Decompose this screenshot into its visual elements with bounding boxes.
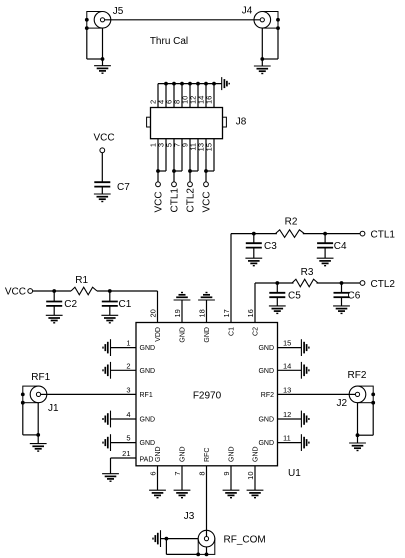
svg-text:7: 7	[173, 472, 182, 476]
U1 pin 20 (VDD)	[149, 309, 162, 342]
wire J2 shield loop	[356, 403, 374, 443]
J8 pin 6	[165, 84, 175, 108]
wire ground to J3	[161, 537, 199, 541]
wire R1 to U1 pin 20	[97, 291, 158, 323]
svg-text:VCC: VCC	[154, 191, 165, 212]
node VCC (J8)	[154, 169, 165, 212]
connector J1	[21, 372, 59, 414]
J8 pin 16	[205, 84, 215, 108]
J8 pin 12	[189, 84, 199, 108]
J8 pin 2	[149, 84, 159, 108]
wire J4 shield loop	[260, 28, 278, 66]
U1 pin 18 (GND)	[198, 300, 211, 343]
U1 pin 5 (GND)	[111, 434, 156, 448]
ground (C3)	[245, 258, 262, 266]
wire CTL2 rail	[255, 282, 360, 284]
ground (C4)	[317, 258, 334, 266]
svg-text:C1: C1	[119, 299, 132, 310]
connector J4	[242, 5, 280, 30]
capacitor C2	[46, 289, 77, 315]
ground (U1 pin 6)	[149, 490, 166, 498]
svg-text:4: 4	[126, 410, 130, 419]
ground (C1)	[101, 315, 118, 323]
U1 pin 15 (GND)	[258, 339, 301, 353]
ground (J1)	[30, 444, 47, 452]
svg-text:15: 15	[205, 143, 214, 151]
U1 pin 1 (GND)	[111, 339, 156, 353]
svg-text:C6: C6	[348, 290, 361, 301]
svg-text:5: 5	[126, 434, 130, 443]
node VCC (J8)	[202, 169, 213, 212]
svg-text:Thru Cal: Thru Cal	[150, 36, 188, 47]
J8 pin 10	[181, 84, 191, 108]
svg-text:F2970: F2970	[193, 391, 222, 402]
svg-text:GND: GND	[253, 446, 260, 462]
svg-text:3: 3	[126, 385, 130, 394]
svg-text:C3: C3	[264, 241, 277, 252]
svg-text:14: 14	[283, 361, 291, 370]
U1 pin 6 (GND)	[149, 446, 163, 490]
connector J5	[85, 6, 124, 30]
svg-text:VCC: VCC	[5, 287, 26, 298]
U1 pin 4 (GND)	[111, 410, 156, 424]
node VCC (C7)	[93, 133, 114, 153]
J8 pin 14	[197, 84, 207, 108]
svg-text:C2: C2	[253, 327, 260, 336]
svg-text:2: 2	[126, 361, 130, 370]
ground (U1 pin 1)	[103, 339, 111, 356]
header J8 body	[147, 108, 247, 139]
node VCC (R1)	[5, 287, 33, 298]
connector J3	[184, 511, 266, 554]
U1 pin 2 (GND)	[111, 361, 156, 375]
U1 pin 10 (GND)	[246, 446, 260, 490]
ground (U1 pin 11)	[301, 434, 309, 451]
svg-text:CTL1: CTL1	[170, 188, 181, 213]
svg-text:RF2: RF2	[348, 370, 367, 381]
svg-text:C2: C2	[64, 299, 77, 310]
svg-text:17: 17	[222, 309, 231, 317]
svg-text:20: 20	[149, 309, 158, 317]
svg-text:18: 18	[198, 309, 207, 317]
U1 pin 7 (GND)	[173, 446, 187, 490]
U1 pin 9 (GND)	[222, 446, 236, 490]
svg-text:15: 15	[283, 339, 291, 348]
node CTL1	[360, 230, 395, 241]
ground (U1 pin 9)	[223, 490, 240, 498]
J8 pin 1	[149, 139, 159, 182]
wire VCC to C2	[33, 290, 71, 292]
svg-text:RF2: RF2	[261, 392, 274, 399]
J8 pin 9	[181, 139, 191, 182]
ground (C2)	[46, 315, 63, 323]
wire C7 to ground	[101, 187, 103, 194]
net label Thru Cal	[150, 36, 188, 47]
ground (U1 pin 15)	[301, 339, 309, 356]
J8 pin 5	[165, 139, 175, 182]
ground (U1 pin 14)	[301, 362, 309, 379]
U1 pin 17 (C1)	[222, 309, 235, 336]
node CTL2	[360, 279, 395, 290]
svg-text:J1: J1	[48, 403, 59, 414]
capacitor C6	[334, 281, 361, 306]
wire J3 shield loop	[166, 539, 208, 557]
resistor R1	[71, 275, 97, 295]
resistor R3	[292, 267, 318, 288]
wire C3 rail to U1 pin 17	[230, 234, 232, 323]
ground (C5)	[269, 306, 286, 314]
ground (J3)	[153, 530, 161, 547]
svg-text:C4: C4	[334, 241, 347, 252]
svg-text:GND: GND	[180, 327, 187, 343]
svg-text:CTL2: CTL2	[186, 188, 197, 213]
ground (U1 pin 10)	[247, 490, 264, 498]
svg-text:6: 6	[149, 472, 158, 476]
wire VCC to C7	[101, 153, 103, 182]
wire CTL1 rail	[231, 233, 360, 235]
svg-text:J5: J5	[113, 6, 124, 17]
svg-text:GND: GND	[140, 440, 156, 447]
ground (U1 pin 12)	[301, 411, 309, 428]
svg-text:U1: U1	[288, 468, 301, 479]
ground (J4)	[254, 66, 271, 74]
U1 pin 12 (GND)	[258, 410, 301, 424]
capacitor C3	[246, 232, 277, 259]
svg-text:J3: J3	[184, 511, 195, 522]
svg-text:CTL2: CTL2	[371, 279, 396, 290]
capacitor C7	[94, 182, 130, 193]
svg-text:GND: GND	[204, 327, 211, 343]
svg-text:GND: GND	[155, 446, 162, 462]
svg-text:12: 12	[283, 410, 291, 419]
U1 pin 11 (GND)	[258, 434, 301, 448]
svg-text:GND: GND	[180, 446, 187, 462]
ground (C7)	[94, 194, 111, 202]
J8 pin 4	[157, 84, 167, 108]
svg-text:GND: GND	[229, 446, 236, 462]
svg-text:PAD: PAD	[140, 457, 154, 464]
ground (J5)	[94, 66, 111, 74]
svg-text:VCC: VCC	[93, 133, 114, 144]
ground (U1 pin 18)	[198, 293, 215, 301]
ground (U1 pin 2)	[103, 362, 111, 379]
svg-text:GND: GND	[258, 440, 274, 447]
U1 pin 19 (GND)	[173, 300, 186, 343]
svg-text:C7: C7	[117, 182, 130, 193]
svg-text:J4: J4	[242, 5, 253, 16]
svg-text:19: 19	[173, 309, 182, 317]
J8 pin 15	[205, 139, 215, 171]
wire J1 shield loop	[23, 403, 40, 444]
svg-text:C1: C1	[229, 327, 236, 336]
svg-text:9: 9	[222, 472, 231, 476]
svg-text:13: 13	[283, 385, 291, 394]
ground (U1 pin 21)	[102, 474, 119, 482]
IC U1 F2970 body	[136, 323, 301, 480]
svg-text:1: 1	[126, 339, 130, 348]
svg-text:CTL1: CTL1	[371, 230, 396, 241]
svg-text:21: 21	[122, 449, 130, 458]
connector J2	[336, 370, 375, 409]
resistor R2	[275, 217, 304, 239]
node CTL2 (J8)	[186, 169, 197, 212]
svg-text:VCC: VCC	[202, 191, 213, 212]
ground (J2)	[349, 443, 366, 451]
svg-text:GND: GND	[140, 368, 156, 375]
U1 pin 21 (PAD)	[111, 449, 154, 474]
ground (U1 pin 19)	[174, 293, 191, 301]
capacitor C5	[269, 281, 301, 306]
svg-text:GND: GND	[258, 345, 274, 352]
J8 pin 13	[197, 139, 207, 182]
capacitor C1	[102, 289, 132, 315]
node CTL1 (J8)	[170, 169, 181, 212]
wire C5 rail to U1 pin 16	[254, 283, 256, 323]
J8 pin 3	[157, 139, 167, 171]
svg-text:GND: GND	[140, 417, 156, 424]
svg-text:VDD: VDD	[155, 327, 162, 342]
svg-text:GND: GND	[258, 417, 274, 424]
wire J5 to J4	[105, 19, 261, 21]
svg-text:10: 10	[246, 472, 255, 480]
svg-text:GND: GND	[140, 345, 156, 352]
J8 pin 11	[189, 139, 199, 171]
svg-text:GND: GND	[258, 368, 274, 375]
U1 pin 14 (GND)	[258, 361, 301, 375]
svg-text:RF1: RF1	[140, 392, 153, 399]
svg-text:R1: R1	[75, 275, 88, 286]
svg-text:J2: J2	[336, 398, 347, 409]
svg-text:RF1: RF1	[31, 372, 50, 383]
svg-text:RFC: RFC	[204, 448, 211, 462]
svg-text:R2: R2	[285, 217, 298, 228]
capacitor C4	[317, 232, 347, 259]
ground (U1 pin 5)	[103, 434, 111, 451]
U1 pin 3 (RF1) wire	[41, 385, 153, 399]
J8 pin 8	[173, 84, 183, 108]
svg-text:C5: C5	[288, 290, 301, 301]
ground (C6)	[333, 306, 350, 314]
ground (J8 rail)	[222, 77, 230, 90]
J8 pin 7	[173, 139, 183, 171]
svg-text:11: 11	[283, 434, 291, 443]
svg-text:RF_COM: RF_COM	[224, 535, 266, 546]
wire J8 ground rail	[158, 82, 222, 86]
U1 pin 13 (RF2) wire	[261, 385, 356, 399]
svg-text:R3: R3	[301, 267, 314, 278]
svg-text:J8: J8	[236, 117, 247, 128]
ground (U1 pin 7)	[174, 490, 191, 498]
U1 pin 16 (C2)	[246, 309, 259, 336]
svg-text:8: 8	[198, 472, 207, 476]
U1 pin 8 (RFC) wire	[198, 448, 212, 537]
svg-text:16: 16	[246, 309, 255, 317]
wire J5 shield loop	[87, 28, 105, 66]
ground (U1 pin 4)	[103, 411, 111, 428]
svg-text:16: 16	[205, 96, 214, 104]
